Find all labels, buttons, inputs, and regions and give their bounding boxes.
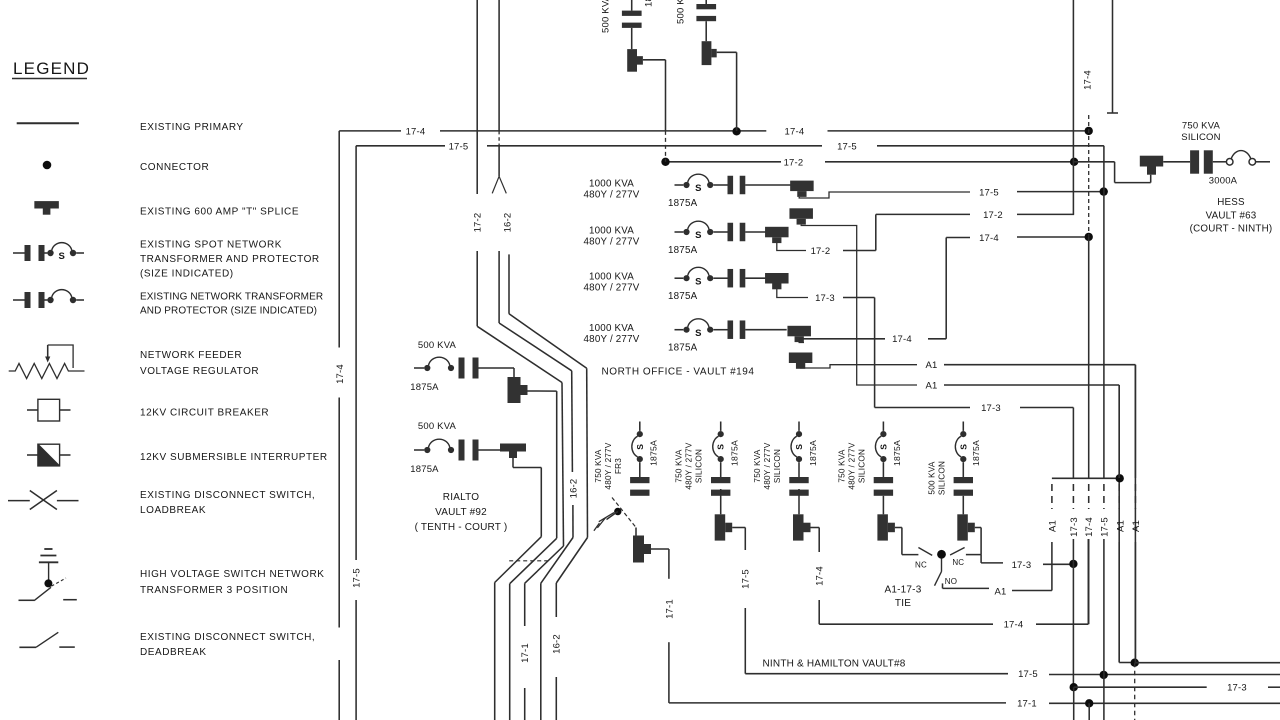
svg-text:NO: NO: [945, 577, 957, 586]
svg-text:16-2: 16-2: [503, 213, 514, 233]
svg-text:1875A: 1875A: [644, 0, 655, 7]
svg-text:A1: A1: [925, 380, 937, 391]
svg-text:480Y / 277V: 480Y / 277V: [847, 442, 856, 489]
svg-text:17-4: 17-4: [1084, 517, 1095, 537]
svg-text:1875A: 1875A: [649, 440, 659, 466]
svg-text:17-4: 17-4: [406, 126, 426, 137]
svg-text:17-1: 17-1: [520, 643, 531, 663]
svg-text:A1: A1: [925, 360, 937, 371]
svg-text:1000 KVA: 1000 KVA: [589, 179, 634, 190]
svg-text:17-5: 17-5: [1018, 669, 1038, 680]
svg-text:750 KVA: 750 KVA: [753, 449, 762, 482]
svg-text:NC: NC: [915, 561, 927, 570]
svg-text:TIE: TIE: [895, 598, 911, 609]
svg-text:17-4: 17-4: [1004, 620, 1024, 631]
svg-text:SILICON: SILICON: [773, 449, 782, 483]
svg-text:500 KVA: 500 KVA: [601, 0, 612, 33]
svg-text:FR3: FR3: [614, 458, 623, 474]
svg-text:17-5: 17-5: [352, 568, 363, 588]
svg-text:1875A: 1875A: [730, 440, 740, 466]
svg-text:(COURT - NINTH): (COURT - NINTH): [1190, 224, 1273, 235]
svg-text:17-4: 17-4: [815, 566, 826, 586]
svg-text:17-3: 17-3: [1012, 560, 1032, 571]
svg-text:1875A: 1875A: [668, 245, 698, 256]
svg-text:SILICON: SILICON: [857, 449, 866, 483]
svg-text:1875A: 1875A: [668, 291, 698, 302]
svg-text:TRANSFORMER 3 POSITION: TRANSFORMER 3 POSITION: [140, 585, 288, 596]
svg-text:AND PROTECTOR (SIZE INDICATED): AND PROTECTOR (SIZE INDICATED): [140, 306, 317, 317]
svg-text:17-5: 17-5: [979, 187, 999, 198]
svg-text:17-3: 17-3: [815, 293, 835, 304]
svg-text:1875A: 1875A: [808, 440, 818, 466]
svg-text:1000 KVA: 1000 KVA: [589, 226, 634, 237]
svg-text:17-4: 17-4: [784, 126, 804, 137]
svg-text:S: S: [716, 444, 726, 450]
svg-text:17-5: 17-5: [1099, 517, 1110, 537]
svg-text:S: S: [794, 444, 804, 450]
svg-text:1875A: 1875A: [668, 198, 698, 209]
svg-text:500 KVA: 500 KVA: [418, 421, 457, 432]
svg-text:S: S: [635, 444, 645, 450]
svg-text:17-3: 17-3: [1227, 683, 1247, 694]
svg-text:480Y / 277V: 480Y / 277V: [685, 442, 694, 489]
svg-text:LEGEND: LEGEND: [13, 59, 90, 78]
svg-text:A1: A1: [1047, 520, 1058, 532]
svg-text:17-1: 17-1: [1017, 698, 1037, 709]
svg-text:17-2: 17-2: [811, 246, 831, 257]
svg-text:VAULT #63: VAULT #63: [1206, 211, 1257, 222]
svg-text:480Y / 277V: 480Y / 277V: [584, 334, 640, 345]
svg-text:480Y / 277V: 480Y / 277V: [763, 442, 772, 489]
svg-text:1000 KVA: 1000 KVA: [589, 272, 634, 283]
svg-text:S: S: [878, 444, 888, 450]
svg-text:EXISTING DISCONNECT SWITCH,: EXISTING DISCONNECT SWITCH,: [140, 632, 315, 643]
svg-text:A1: A1: [1115, 520, 1126, 532]
svg-text:750 KVA: 750 KVA: [675, 449, 684, 482]
svg-text:17-2: 17-2: [473, 213, 484, 233]
svg-text:17-3: 17-3: [1069, 517, 1080, 537]
svg-text:EXISTING SPOT NETWORK: EXISTING SPOT NETWORK: [140, 240, 282, 251]
svg-text:17-4: 17-4: [892, 334, 912, 345]
svg-text:17-1: 17-1: [664, 599, 675, 619]
svg-text:EXISTING NETWORK TRANSFORMER: EXISTING NETWORK TRANSFORMER: [140, 292, 323, 303]
svg-text:750 KVA: 750 KVA: [837, 449, 846, 482]
svg-text:16-2: 16-2: [552, 634, 563, 654]
svg-text:17-4: 17-4: [335, 364, 346, 384]
svg-text:TRANSFORMER AND PROTECTOR: TRANSFORMER AND PROTECTOR: [140, 254, 320, 265]
svg-text:S: S: [695, 230, 702, 241]
svg-text:(SIZE INDICATED): (SIZE INDICATED): [140, 269, 234, 280]
svg-text:17-4: 17-4: [979, 233, 999, 244]
svg-text:3000A: 3000A: [1209, 176, 1238, 187]
svg-text:17-4: 17-4: [1083, 70, 1094, 90]
svg-text:( TENTH - COURT ): ( TENTH - COURT ): [415, 522, 508, 533]
svg-text:A1-17-3: A1-17-3: [885, 585, 922, 596]
svg-text:480Y / 277V: 480Y / 277V: [584, 237, 640, 248]
svg-text:EXISTING PRIMARY: EXISTING PRIMARY: [140, 122, 244, 133]
svg-text:NORTH OFFICE - VAULT #194: NORTH OFFICE - VAULT #194: [601, 367, 754, 378]
svg-text:S: S: [695, 183, 702, 194]
svg-text:HIGH VOLTAGE SWITCH NETWORK: HIGH VOLTAGE SWITCH NETWORK: [140, 569, 324, 580]
svg-text:SILICON: SILICON: [695, 449, 704, 483]
svg-text:1875A: 1875A: [410, 382, 439, 393]
svg-text:EXISTING 600 AMP "T" SPLICE: EXISTING 600 AMP "T" SPLICE: [140, 207, 299, 218]
svg-text:1875A: 1875A: [971, 440, 981, 466]
svg-text:17-2: 17-2: [784, 157, 804, 168]
svg-text:1875A: 1875A: [892, 440, 902, 466]
svg-text:EXISTING DISCONNECT SWITCH,: EXISTING DISCONNECT SWITCH,: [140, 490, 315, 501]
svg-text:12KV CIRCUIT BREAKER: 12KV CIRCUIT BREAKER: [140, 408, 269, 419]
svg-text:1875A: 1875A: [410, 464, 439, 475]
svg-text:DEADBREAK: DEADBREAK: [140, 647, 207, 658]
svg-text:750 KVA: 750 KVA: [594, 449, 603, 482]
svg-text:17-2: 17-2: [983, 210, 1003, 221]
svg-text:S: S: [58, 251, 65, 262]
svg-text:480Y / 277V: 480Y / 277V: [604, 442, 613, 489]
svg-text:VAULT #92: VAULT #92: [435, 507, 487, 518]
svg-text:480Y / 277V: 480Y / 277V: [584, 283, 640, 294]
svg-text:500 KVA: 500 KVA: [418, 340, 457, 351]
svg-text:A1: A1: [994, 587, 1006, 598]
svg-text:VOLTAGE REGULATOR: VOLTAGE REGULATOR: [140, 366, 259, 377]
svg-text:12KV SUBMERSIBLE INTERRUPTER: 12KV SUBMERSIBLE INTERRUPTER: [140, 452, 328, 463]
svg-text:480Y / 277V: 480Y / 277V: [584, 190, 640, 201]
svg-text:17-5: 17-5: [837, 142, 857, 153]
svg-text:16-2: 16-2: [568, 479, 579, 499]
svg-text:HESS: HESS: [1217, 197, 1245, 208]
svg-text:1000 KVA: 1000 KVA: [589, 323, 634, 334]
svg-text:SILICON: SILICON: [1181, 132, 1220, 143]
svg-text:NC: NC: [952, 558, 964, 567]
svg-text:S: S: [958, 444, 968, 450]
svg-text:500 KVA: 500 KVA: [927, 461, 936, 494]
svg-text:1875A: 1875A: [668, 343, 698, 354]
svg-text:17-5: 17-5: [449, 142, 469, 153]
svg-text:RIALTO: RIALTO: [443, 492, 479, 503]
svg-text:17-5: 17-5: [741, 569, 752, 589]
svg-text:LOADBREAK: LOADBREAK: [140, 505, 206, 516]
svg-text:A1: A1: [1131, 520, 1142, 532]
svg-text:SILICON: SILICON: [937, 461, 946, 495]
svg-text:NETWORK FEEDER: NETWORK FEEDER: [140, 350, 242, 361]
svg-text:17-3: 17-3: [981, 403, 1001, 414]
svg-text:S: S: [695, 276, 702, 287]
svg-text:CONNECTOR: CONNECTOR: [140, 162, 209, 173]
svg-text:NINTH & HAMILTON VAULT#8: NINTH & HAMILTON VAULT#8: [763, 659, 906, 670]
svg-text:750 KVA: 750 KVA: [1182, 121, 1221, 132]
svg-text:S: S: [695, 328, 702, 339]
svg-text:500 KVA: 500 KVA: [676, 0, 687, 24]
